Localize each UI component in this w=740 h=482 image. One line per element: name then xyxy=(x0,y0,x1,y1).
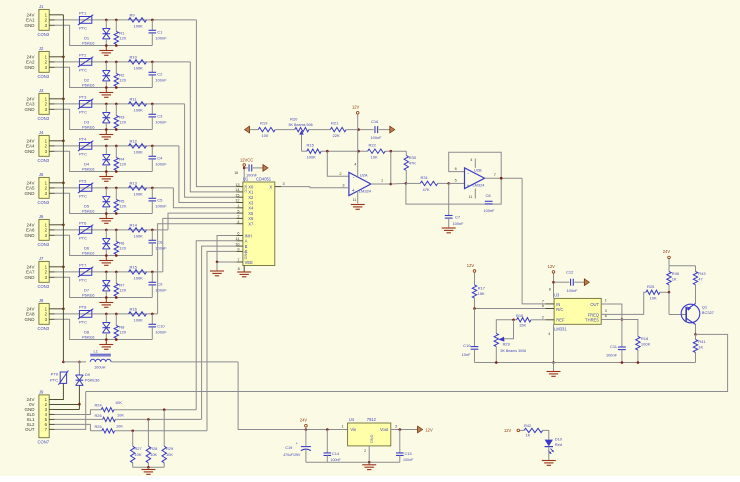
svg-text:5: 5 xyxy=(455,179,457,183)
svg-text:VEE: VEE xyxy=(245,260,254,265)
svg-text:120: 120 xyxy=(119,204,126,209)
svg-text:PTC: PTC xyxy=(79,278,87,283)
svg-text:Vin: Vin xyxy=(350,427,357,432)
svg-text:REF: REF xyxy=(556,317,565,322)
svg-text:2: 2 xyxy=(339,172,341,176)
svg-text:10K: 10K xyxy=(135,452,142,457)
svg-text:C3: C3 xyxy=(157,113,163,118)
svg-text:R27: R27 xyxy=(135,446,142,451)
svg-text:R16: R16 xyxy=(516,313,524,318)
svg-text:GND: GND xyxy=(25,23,36,28)
svg-text:PT5: PT5 xyxy=(79,179,87,184)
svg-text:R2: R2 xyxy=(119,72,125,77)
svg-text:Red: Red xyxy=(555,442,562,447)
svg-text:EA5: EA5 xyxy=(26,186,35,191)
svg-text:10K: 10K xyxy=(116,424,123,429)
svg-text:100nF: 100nF xyxy=(567,288,579,293)
svg-text:R29: R29 xyxy=(166,446,173,451)
svg-text:GND: GND xyxy=(243,251,247,260)
svg-text:47: 47 xyxy=(698,276,703,281)
svg-text:100K: 100K xyxy=(134,24,144,29)
svg-text:R9: R9 xyxy=(130,12,136,17)
svg-text:3: 3 xyxy=(283,182,285,186)
svg-text:P6KE6: P6KE6 xyxy=(82,209,95,214)
svg-text:12VCC: 12VCC xyxy=(240,157,253,162)
svg-text:R3: R3 xyxy=(119,114,125,119)
svg-text:PT2: PT2 xyxy=(79,53,87,58)
svg-text:R41: R41 xyxy=(698,339,706,344)
svg-text:C12: C12 xyxy=(566,269,574,274)
svg-text:CD4051: CD4051 xyxy=(256,176,272,181)
svg-text:CON3: CON3 xyxy=(38,116,50,121)
svg-text:12V: 12V xyxy=(425,427,433,432)
svg-text:PTC: PTC xyxy=(79,26,87,31)
svg-text:D5: D5 xyxy=(84,203,90,208)
svg-text:10K: 10K xyxy=(166,452,173,457)
svg-text:5: 5 xyxy=(237,209,239,213)
svg-text:U3: U3 xyxy=(554,293,560,298)
svg-text:J6: J6 xyxy=(39,214,44,219)
svg-text:P6KE6: P6KE6 xyxy=(82,41,95,46)
svg-text:R19: R19 xyxy=(260,121,268,126)
svg-text:EA2: EA2 xyxy=(26,60,35,65)
svg-text:LM324: LM324 xyxy=(359,189,372,194)
svg-text:24V: 24V xyxy=(300,418,308,423)
svg-text:THRES: THRES xyxy=(585,317,599,322)
svg-text:CON3: CON3 xyxy=(38,200,50,205)
svg-text:4: 4 xyxy=(237,220,239,224)
svg-text:U1: U1 xyxy=(243,176,249,181)
svg-text:120: 120 xyxy=(119,78,126,83)
svg-text:PTC: PTC xyxy=(79,320,87,325)
svg-text:+: + xyxy=(352,188,355,194)
svg-text:X6: X6 xyxy=(248,216,254,221)
svg-text:U4: U4 xyxy=(349,417,355,422)
svg-text:Vout: Vout xyxy=(380,427,389,432)
svg-text:7812: 7812 xyxy=(367,417,377,422)
svg-text:100nF: 100nF xyxy=(155,78,167,83)
svg-text:100nF: 100nF xyxy=(155,246,167,251)
svg-text:X4: X4 xyxy=(248,206,254,211)
svg-text:3: 3 xyxy=(605,309,607,313)
svg-text:P6KE36: P6KE36 xyxy=(85,378,100,383)
svg-text:PT7: PT7 xyxy=(79,263,87,268)
svg-text:P6KE6: P6KE6 xyxy=(82,167,95,172)
svg-text:10K: 10K xyxy=(115,400,122,405)
svg-text:R20: R20 xyxy=(290,116,298,121)
svg-text:R1: R1 xyxy=(119,30,125,35)
svg-text:C1: C1 xyxy=(157,29,163,34)
svg-text:+: + xyxy=(467,183,470,188)
svg-text:2: 2 xyxy=(237,215,239,219)
svg-text:100K: 100K xyxy=(134,318,144,323)
svg-text:J3: J3 xyxy=(39,88,44,93)
svg-text:R15: R15 xyxy=(130,264,138,269)
svg-text:D1: D1 xyxy=(84,35,90,40)
svg-text:10K: 10K xyxy=(371,155,378,160)
svg-text:GND: GND xyxy=(25,275,36,280)
svg-text:1K: 1K xyxy=(526,433,531,438)
svg-text:INH: INH xyxy=(245,233,252,238)
svg-text:R17: R17 xyxy=(478,285,486,290)
svg-text:P6KE6: P6KE6 xyxy=(82,293,95,298)
svg-text:GND: GND xyxy=(25,65,36,70)
svg-text:12V: 12V xyxy=(467,263,475,268)
svg-text:PTC: PTC xyxy=(79,110,87,115)
svg-text:R40: R40 xyxy=(672,271,680,276)
svg-text:10K: 10K xyxy=(117,412,124,417)
svg-text:100nF: 100nF xyxy=(484,208,496,213)
svg-text:100nF: 100nF xyxy=(155,330,167,335)
svg-text:L1: L1 xyxy=(94,348,99,353)
svg-text:D4: D4 xyxy=(84,161,90,166)
svg-text:GND: GND xyxy=(25,149,36,154)
svg-text:1: 1 xyxy=(381,178,383,182)
svg-text:PT3: PT3 xyxy=(79,95,87,100)
svg-text:4: 4 xyxy=(548,332,550,336)
svg-text:C7: C7 xyxy=(455,215,461,220)
svg-text:CON3: CON3 xyxy=(38,326,50,331)
svg-text:R/C: R/C xyxy=(556,307,563,312)
svg-text:R30: R30 xyxy=(409,155,417,160)
svg-text:R29: R29 xyxy=(503,342,510,347)
svg-text:100K: 100K xyxy=(134,276,144,281)
svg-text:CON3: CON3 xyxy=(38,74,50,79)
svg-text:GND: GND xyxy=(25,317,36,322)
svg-text:C8: C8 xyxy=(486,193,492,198)
svg-text:R5: R5 xyxy=(119,198,125,203)
svg-text:Q1: Q1 xyxy=(702,304,708,309)
svg-text:C11: C11 xyxy=(610,344,618,349)
svg-text:12: 12 xyxy=(235,199,239,203)
svg-text:2: 2 xyxy=(542,316,544,320)
svg-text:100K: 100K xyxy=(134,150,144,155)
svg-text:U2B: U2B xyxy=(474,168,482,173)
svg-text:PTC: PTC xyxy=(79,68,87,73)
svg-text:6: 6 xyxy=(455,167,457,171)
svg-text:100nF: 100nF xyxy=(155,36,167,41)
svg-text:R22: R22 xyxy=(369,142,377,147)
svg-text:J9: J9 xyxy=(39,390,44,395)
svg-text:P6KE6: P6KE6 xyxy=(82,335,95,340)
svg-text:22K: 22K xyxy=(333,133,340,138)
svg-text:P6KE6: P6KE6 xyxy=(82,251,95,256)
svg-text:11: 11 xyxy=(469,195,473,199)
svg-text:R4: R4 xyxy=(119,156,125,161)
svg-text:J7: J7 xyxy=(39,256,44,261)
svg-text:10nF: 10nF xyxy=(462,352,471,357)
svg-text:100nF: 100nF xyxy=(403,458,414,462)
svg-text:100nF: 100nF xyxy=(155,120,167,125)
svg-text:13: 13 xyxy=(235,183,239,187)
svg-text:EA4: EA4 xyxy=(26,144,35,149)
svg-text:BC327: BC327 xyxy=(702,310,715,315)
svg-text:C15: C15 xyxy=(405,451,412,456)
svg-text:120: 120 xyxy=(119,246,126,251)
svg-text:5K Beams 506: 5K Beams 506 xyxy=(289,123,313,127)
svg-text:100nF: 100nF xyxy=(331,458,342,462)
svg-text:15K: 15K xyxy=(519,322,526,327)
svg-text:C14: C14 xyxy=(332,451,340,456)
svg-text:12V: 12V xyxy=(352,105,360,110)
svg-text:6: 6 xyxy=(542,304,544,308)
svg-text:VCC: VCC xyxy=(243,185,247,193)
svg-text:D7: D7 xyxy=(84,287,90,292)
svg-text:CON3: CON3 xyxy=(38,32,50,37)
svg-text:CON3: CON3 xyxy=(38,158,50,163)
svg-text:J4: J4 xyxy=(39,130,44,135)
svg-text:CON7: CON7 xyxy=(38,440,50,445)
svg-text:D8: D8 xyxy=(84,329,90,334)
svg-text:EA3: EA3 xyxy=(26,102,35,107)
svg-text:7: 7 xyxy=(542,300,544,304)
svg-text:12V: 12V xyxy=(504,428,512,433)
svg-text:470uF/25V: 470uF/25V xyxy=(283,453,301,457)
svg-text:8: 8 xyxy=(238,267,240,271)
svg-text:PT8: PT8 xyxy=(79,305,87,310)
svg-text:D9: D9 xyxy=(85,372,91,377)
svg-text:D10: D10 xyxy=(555,436,563,441)
svg-text:R31: R31 xyxy=(421,175,429,180)
svg-text:3: 3 xyxy=(342,183,344,187)
svg-text:EA8: EA8 xyxy=(26,312,35,317)
svg-text:R15: R15 xyxy=(307,142,315,147)
svg-text:PT6: PT6 xyxy=(79,221,87,226)
svg-text:U2A: U2A xyxy=(360,172,368,177)
svg-text:120: 120 xyxy=(119,288,126,293)
svg-text:100K: 100K xyxy=(307,155,317,160)
svg-text:47K: 47K xyxy=(423,187,430,192)
svg-text:1K: 1K xyxy=(672,276,677,281)
svg-text:-: - xyxy=(353,175,355,181)
svg-text:7: 7 xyxy=(494,173,496,177)
svg-text:1: 1 xyxy=(237,204,239,208)
svg-text:12V: 12V xyxy=(548,264,556,269)
svg-text:3: 3 xyxy=(395,425,397,429)
svg-text:PTC: PTC xyxy=(79,194,87,199)
svg-text:100: 100 xyxy=(262,133,269,138)
svg-text:R24: R24 xyxy=(95,403,103,408)
svg-text:4: 4 xyxy=(470,158,472,162)
svg-text:PT4: PT4 xyxy=(79,137,87,142)
svg-text:PTC: PTC xyxy=(79,152,87,157)
svg-text:C5: C5 xyxy=(157,197,163,202)
svg-text:10K: 10K xyxy=(150,452,157,457)
svg-text:EA1: EA1 xyxy=(26,18,35,23)
svg-text:D3: D3 xyxy=(84,119,90,124)
svg-text:PT1: PT1 xyxy=(79,11,87,16)
svg-text:R21: R21 xyxy=(331,121,339,126)
svg-text:100K: 100K xyxy=(134,192,144,197)
svg-text:100nF: 100nF xyxy=(453,221,465,226)
svg-text:100K: 100K xyxy=(134,234,144,239)
svg-text:R10: R10 xyxy=(130,54,138,59)
svg-text:120: 120 xyxy=(119,36,126,41)
svg-text:100K: 100K xyxy=(134,108,144,113)
svg-text:GND: GND xyxy=(370,435,374,444)
svg-text:1: 1 xyxy=(605,299,607,303)
svg-text:PT9: PT9 xyxy=(51,372,59,377)
svg-text:R7: R7 xyxy=(119,282,125,287)
svg-text:X: X xyxy=(269,184,272,189)
svg-text:C4: C4 xyxy=(157,155,163,160)
svg-text:R6: R6 xyxy=(119,240,125,245)
svg-text:15: 15 xyxy=(235,193,239,197)
svg-text:C2: C2 xyxy=(157,71,163,76)
svg-text:8: 8 xyxy=(549,288,551,292)
svg-text:EA6: EA6 xyxy=(26,228,35,233)
svg-text:47K: 47K xyxy=(409,160,416,165)
svg-text:1K: 1K xyxy=(698,345,703,350)
svg-text:D6: D6 xyxy=(84,245,90,250)
svg-text:15K: 15K xyxy=(478,291,485,296)
svg-text:5K Beams 3006: 5K Beams 3006 xyxy=(501,349,527,353)
svg-text:J8: J8 xyxy=(39,298,44,303)
svg-text:CON3: CON3 xyxy=(38,242,50,247)
svg-text:R8: R8 xyxy=(119,324,125,329)
svg-text:100nF: 100nF xyxy=(155,204,167,209)
svg-text:R25: R25 xyxy=(95,424,102,429)
svg-text:C9: C9 xyxy=(157,281,163,286)
svg-text:X3: X3 xyxy=(248,200,254,205)
svg-text:100uH: 100uH xyxy=(94,365,106,370)
svg-text:16: 16 xyxy=(234,171,238,175)
svg-text:X1: X1 xyxy=(248,190,254,195)
svg-text:P6KE6: P6KE6 xyxy=(82,83,95,88)
svg-text:X7: X7 xyxy=(248,222,254,227)
svg-text:X2: X2 xyxy=(248,195,254,200)
svg-text:LM324: LM324 xyxy=(473,183,486,188)
svg-text:C10: C10 xyxy=(157,323,165,328)
svg-text:PTC: PTC xyxy=(79,236,87,241)
svg-text:11: 11 xyxy=(353,198,357,202)
svg-text:PTC: PTC xyxy=(50,377,58,382)
svg-text:R12: R12 xyxy=(130,138,138,143)
svg-text:120: 120 xyxy=(119,330,126,335)
svg-text:A: A xyxy=(245,239,248,244)
svg-text:R18: R18 xyxy=(641,336,649,341)
svg-text:C16: C16 xyxy=(371,119,379,124)
svg-text:1: 1 xyxy=(341,425,343,429)
svg-text:R13: R13 xyxy=(130,180,138,185)
svg-text:EA7: EA7 xyxy=(26,270,35,275)
svg-text:OUT: OUT xyxy=(590,302,599,307)
svg-text:P6KE6: P6KE6 xyxy=(82,125,95,130)
svg-text:100nF: 100nF xyxy=(606,352,618,357)
svg-text:IN: IN xyxy=(556,302,560,307)
svg-text:D2: D2 xyxy=(84,77,90,82)
svg-text:J5: J5 xyxy=(39,172,44,177)
svg-text:R11: R11 xyxy=(130,96,138,101)
svg-text:7: 7 xyxy=(237,258,239,262)
svg-text:OUT: OUT xyxy=(25,427,35,432)
svg-text:100nF: 100nF xyxy=(155,162,167,167)
svg-text:100nF: 100nF xyxy=(155,288,167,293)
svg-text:24V: 24V xyxy=(663,249,671,254)
svg-text:C10: C10 xyxy=(463,343,471,348)
svg-text:LM331: LM331 xyxy=(554,326,567,331)
svg-text:B: B xyxy=(245,244,248,249)
svg-text:R14: R14 xyxy=(130,222,138,227)
svg-text:X0: X0 xyxy=(248,184,254,189)
svg-text:R42: R42 xyxy=(524,423,531,428)
svg-text:2: 2 xyxy=(364,449,366,453)
svg-text:100nF: 100nF xyxy=(371,135,383,140)
svg-text:4: 4 xyxy=(354,162,356,166)
svg-text:C19: C19 xyxy=(285,445,292,450)
svg-text:120: 120 xyxy=(119,120,126,125)
svg-text:14: 14 xyxy=(235,188,239,192)
svg-text:J1: J1 xyxy=(39,4,44,9)
svg-text:10K: 10K xyxy=(650,295,657,300)
svg-text:100K: 100K xyxy=(641,341,651,346)
svg-text:R43: R43 xyxy=(698,271,706,276)
svg-text:R28: R28 xyxy=(150,446,157,451)
svg-text:GND: GND xyxy=(25,107,36,112)
svg-text:6: 6 xyxy=(237,232,239,236)
svg-text:X5: X5 xyxy=(248,211,254,216)
svg-text:GND: GND xyxy=(25,191,36,196)
svg-text:100K: 100K xyxy=(134,66,144,71)
svg-text:120: 120 xyxy=(119,162,126,167)
svg-text:9: 9 xyxy=(237,248,239,252)
svg-text:GND: GND xyxy=(25,233,36,238)
svg-text:CON3: CON3 xyxy=(38,284,50,289)
svg-text:R25: R25 xyxy=(647,284,655,289)
svg-text:R26: R26 xyxy=(95,413,102,418)
svg-text:R16: R16 xyxy=(130,306,138,311)
svg-text:J2: J2 xyxy=(39,46,44,51)
